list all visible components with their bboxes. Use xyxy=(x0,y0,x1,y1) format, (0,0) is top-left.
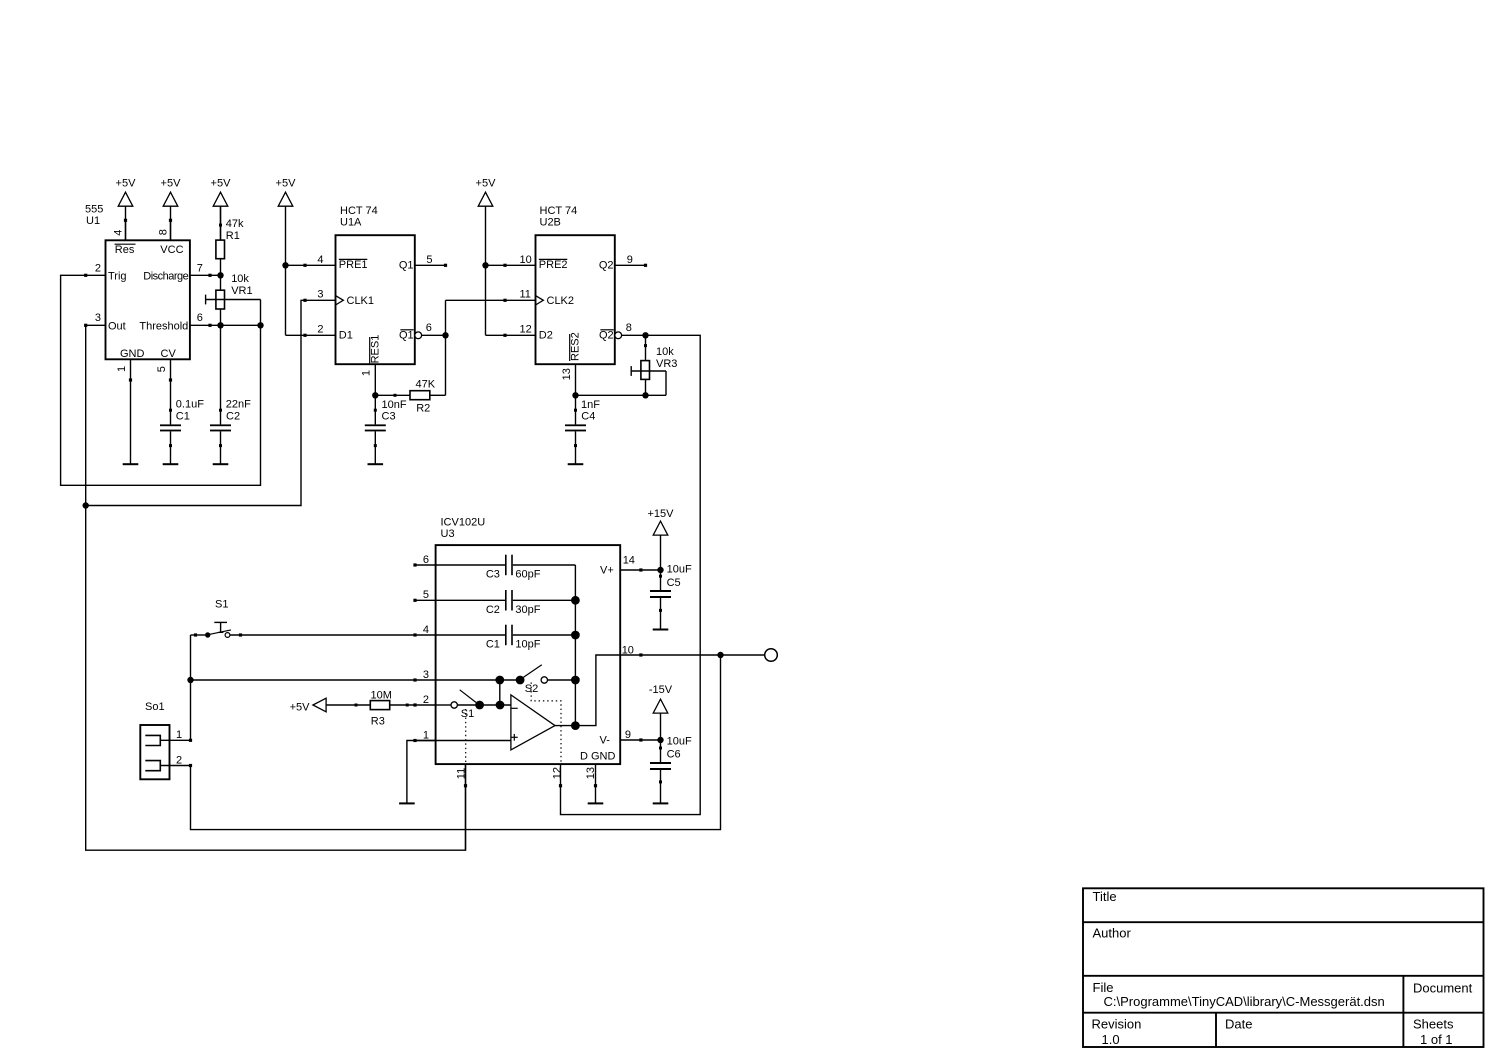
svg-text:CLK1: CLK1 xyxy=(347,295,375,307)
svg-text:10M: 10M xyxy=(371,690,392,702)
title block frame xyxy=(1083,888,1484,1047)
svg-text:PRE2: PRE2 xyxy=(539,259,568,271)
U3 pin 10 output xyxy=(620,644,642,656)
capacitor C2 22nF xyxy=(210,325,251,463)
svg-text:+15V: +15V xyxy=(648,508,675,520)
svg-text:1: 1 xyxy=(423,729,429,741)
ground (U1 pin1) xyxy=(123,463,139,465)
svg-text:-15V: -15V xyxy=(649,684,673,696)
svg-text:10: 10 xyxy=(622,644,634,656)
node C5 junction xyxy=(657,567,663,573)
U1 pin 3 Out xyxy=(84,312,105,327)
U2B pin 11 CLK2 xyxy=(503,289,574,307)
svg-text:1: 1 xyxy=(116,366,128,372)
svg-text:S1: S1 xyxy=(215,599,228,611)
U3 pin 11 xyxy=(455,764,467,850)
node Threshold junction left xyxy=(217,322,223,328)
svg-text:D GND: D GND xyxy=(580,750,616,762)
wire pins 3-2 link xyxy=(499,680,501,705)
U3 pin 1 xyxy=(413,729,435,742)
svg-text:22nF: 22nF xyxy=(226,399,251,411)
svg-text:10: 10 xyxy=(520,254,532,266)
svg-text:R3: R3 xyxy=(371,716,385,728)
capacitor C2 30pF internal xyxy=(436,590,576,616)
svg-text:7: 7 xyxy=(197,262,203,274)
svg-text:555: 555 xyxy=(85,203,103,215)
IC U3 ICV102U body xyxy=(436,517,621,765)
U1A pin 6 Q1-bar xyxy=(399,322,445,341)
svg-text:Author: Author xyxy=(1093,926,1132,941)
svg-text:R2: R2 xyxy=(416,403,430,415)
potentiometer VR1 10k xyxy=(206,273,261,325)
svg-text:+5V: +5V xyxy=(161,177,182,189)
op-amp U3 internal xyxy=(511,695,555,750)
switch S2 xyxy=(495,665,575,696)
U1 pin 2 Trig xyxy=(84,262,105,277)
svg-text:12: 12 xyxy=(520,323,532,335)
ground (C5) xyxy=(653,629,669,631)
node C6 junction xyxy=(657,737,663,743)
svg-text:60pF: 60pF xyxy=(515,568,540,580)
node +5V/PRE1 junction xyxy=(282,262,288,268)
U3 pin 12 number xyxy=(551,767,563,779)
svg-text:+5V: +5V xyxy=(276,177,297,189)
flip-flop U1A HCT74 body xyxy=(336,205,415,364)
svg-text:1: 1 xyxy=(361,370,373,376)
svg-text:CV: CV xyxy=(161,348,177,360)
svg-text:2: 2 xyxy=(176,754,182,766)
node rail S2 junction xyxy=(571,676,580,685)
capacitor C6 10uF xyxy=(641,736,692,803)
ground (U3 pin 13) xyxy=(588,802,604,804)
svg-text:9: 9 xyxy=(625,729,631,741)
svg-text:Document: Document xyxy=(1413,980,1473,995)
U2B pin 13 RES2 xyxy=(561,332,581,395)
node VR3 bottom junction xyxy=(642,392,648,398)
wire pin 3 row xyxy=(436,679,521,681)
svg-text:VR3: VR3 xyxy=(656,358,677,370)
svg-text:4: 4 xyxy=(423,624,429,636)
ground (U3 pin 1) xyxy=(399,802,415,804)
svg-text:ICV102U: ICV102U xyxy=(441,517,486,529)
svg-text:1.0: 1.0 xyxy=(1102,1032,1120,1047)
ground (C1) xyxy=(163,463,179,465)
power +5V symbol (R3, pointing left) xyxy=(290,698,371,713)
wire So1 pin2 to output node xyxy=(191,655,721,830)
svg-text:2: 2 xyxy=(423,694,429,706)
U1 pin 6 Threshold xyxy=(190,312,212,327)
U2B pin 12 D2 xyxy=(503,323,552,341)
svg-text:11: 11 xyxy=(520,289,531,301)
wire pin 1 row to op-amp xyxy=(415,740,511,742)
svg-text:1: 1 xyxy=(176,729,182,741)
svg-text:10k: 10k xyxy=(231,273,249,285)
potentiometer VR3 10k xyxy=(631,335,677,395)
wire Q2-bar to U3 pin12 loop xyxy=(559,335,700,814)
wire op-amp output xyxy=(555,655,620,726)
svg-text:1nF: 1nF xyxy=(581,399,600,411)
svg-text:+5V: +5V xyxy=(211,177,232,189)
svg-text:4: 4 xyxy=(112,230,124,236)
svg-text:5: 5 xyxy=(426,254,432,266)
title block labels xyxy=(1092,889,1473,1047)
U1A pin 5 Q1 xyxy=(399,254,447,272)
svg-text:GND: GND xyxy=(120,348,145,360)
svg-text:30pF: 30pF xyxy=(515,604,540,616)
svg-text:Title: Title xyxy=(1093,889,1117,904)
power +5V symbol (U1 pin 8) xyxy=(161,177,182,240)
wire node to U3 pin 3 xyxy=(191,679,416,681)
wire Q1-bar to CLK2 and R2 xyxy=(446,300,506,395)
svg-text:File: File xyxy=(1093,980,1114,995)
U3 pin 14 V+ xyxy=(620,554,642,571)
capacitor C5 10uF xyxy=(641,564,692,629)
wire 555 Out riser xyxy=(86,325,466,850)
U2B pin 8 Q2-bar xyxy=(599,322,645,341)
wire U1 pin1 to ground xyxy=(130,380,132,464)
svg-text:5: 5 xyxy=(156,366,168,372)
switch S1 pushbutton xyxy=(191,599,416,638)
svg-text:47K: 47K xyxy=(416,379,436,391)
power +5V symbol (U1A PRE1/D1) xyxy=(276,177,297,335)
svg-text:Discharge: Discharge xyxy=(143,271,188,283)
flip-flop U2B HCT74 body xyxy=(536,205,615,364)
svg-text:6: 6 xyxy=(426,322,432,334)
svg-text:V+: V+ xyxy=(600,565,614,577)
svg-text:Q1: Q1 xyxy=(399,259,414,271)
svg-text:10k: 10k xyxy=(656,346,674,358)
U3 pin 4 xyxy=(413,624,435,637)
svg-text:C6: C6 xyxy=(667,749,681,761)
power -15V symbol (C6) xyxy=(649,684,673,740)
node Q1-bar junction xyxy=(442,332,448,338)
svg-text:C2: C2 xyxy=(226,411,240,423)
wire internal rail xyxy=(574,565,576,726)
node S1/pin3/So1 junction xyxy=(187,677,193,683)
svg-text:C5: C5 xyxy=(667,577,681,589)
capacitor C3 10nF xyxy=(365,395,407,463)
svg-text:U1: U1 xyxy=(86,215,100,227)
U3 pin 2 xyxy=(413,694,435,707)
U1 pin 4 xyxy=(112,219,127,241)
svg-text:5: 5 xyxy=(423,589,429,601)
svg-text:S1: S1 xyxy=(461,708,474,720)
svg-text:8: 8 xyxy=(158,229,170,235)
svg-text:2: 2 xyxy=(95,262,101,274)
svg-text:D1: D1 xyxy=(339,329,353,341)
ground (C2) xyxy=(213,463,229,465)
svg-text:6: 6 xyxy=(423,554,429,566)
svg-text:6: 6 xyxy=(197,312,203,324)
U3 pin 5 xyxy=(413,589,435,602)
dotted control S2 to pin 12 xyxy=(531,683,561,765)
svg-text:RES1: RES1 xyxy=(369,335,381,364)
power +5V symbol (U2B PRE2/D2) xyxy=(476,177,497,335)
connector So1 xyxy=(140,701,192,779)
capacitor C3 60pF internal xyxy=(436,555,576,581)
U3 pin 13 xyxy=(585,764,597,803)
ground (C4) xyxy=(568,463,584,465)
wire D1 from +5V xyxy=(286,334,306,336)
svg-text:U2B: U2B xyxy=(540,217,561,229)
wire Trig loop to Threshold xyxy=(61,275,261,485)
svg-text:Sheets: Sheets xyxy=(1413,1017,1454,1032)
svg-text:HCT 74: HCT 74 xyxy=(340,205,378,217)
svg-text:RES2: RES2 xyxy=(569,332,581,361)
svg-text:10nF: 10nF xyxy=(382,399,407,411)
capacitor C1 10pF internal xyxy=(436,625,576,651)
svg-text:C1: C1 xyxy=(486,638,500,650)
capacitor C1 0.1uF xyxy=(160,380,204,464)
svg-text:PRE1: PRE1 xyxy=(339,259,368,271)
svg-text:So1: So1 xyxy=(145,701,165,713)
svg-text:3: 3 xyxy=(317,289,323,301)
wire output to terminal xyxy=(641,654,765,656)
svg-text:+5V: +5V xyxy=(116,177,137,189)
wire pin7 to R1 node xyxy=(210,274,221,276)
svg-text:13: 13 xyxy=(585,767,597,779)
dotted control S1 to pin 11 xyxy=(465,709,467,764)
node Discharge junction xyxy=(217,272,223,278)
U1 pin 8 xyxy=(158,219,173,241)
wire PRE2 from +5V junction xyxy=(486,264,506,266)
svg-text:Date: Date xyxy=(1225,1017,1252,1032)
svg-text:VR1: VR1 xyxy=(231,285,252,297)
svg-text:VCC: VCC xyxy=(160,244,183,256)
node Out/CLK1 junction xyxy=(83,502,89,508)
svg-text:9: 9 xyxy=(627,254,633,266)
svg-text:Threshold: Threshold xyxy=(139,320,188,332)
svg-text:14: 14 xyxy=(623,554,635,566)
svg-text:4: 4 xyxy=(317,254,323,266)
svg-text:HCT 74: HCT 74 xyxy=(540,205,578,217)
resistor R3 10M xyxy=(355,690,416,728)
resistor R1 47k xyxy=(216,206,244,275)
node RES1 junction xyxy=(372,392,378,398)
switch S1 internal xyxy=(436,690,511,720)
U1A pin 1 RES1 xyxy=(361,335,382,396)
node RES2 junction xyxy=(572,392,578,398)
svg-text:Revision: Revision xyxy=(1092,1017,1142,1032)
U1 pin 7 Discharge xyxy=(190,262,212,277)
node rail C2 junction xyxy=(571,596,580,605)
power +5V symbol (U1 pin 4) xyxy=(116,177,137,240)
wire D2 from +5V xyxy=(486,334,506,336)
svg-text:C1: C1 xyxy=(176,411,190,423)
svg-text:C3: C3 xyxy=(486,568,500,580)
svg-text:U1A: U1A xyxy=(340,217,362,229)
node Threshold junction right xyxy=(257,322,263,328)
U1A pin 2 D1 xyxy=(303,323,352,341)
svg-text:10pF: 10pF xyxy=(515,638,540,650)
svg-text:Q1: Q1 xyxy=(399,330,414,342)
svg-text:C3: C3 xyxy=(382,411,396,423)
U3 pin 9 V- xyxy=(620,729,642,741)
svg-text:CLK2: CLK2 xyxy=(547,295,575,307)
node op-amp output junction xyxy=(571,721,580,730)
svg-text:C4: C4 xyxy=(581,411,595,423)
svg-text:D2: D2 xyxy=(539,329,553,341)
svg-text:Trig: Trig xyxy=(108,271,127,283)
ground (C3) xyxy=(368,463,384,465)
svg-text:1 of 1: 1 of 1 xyxy=(1420,1032,1453,1047)
node Q2-bar junction xyxy=(642,332,648,338)
svg-text:47k: 47k xyxy=(226,218,244,230)
U1 pin 1 GND xyxy=(116,359,132,381)
node rail C1 junction xyxy=(571,631,580,640)
svg-text:C:\Programme\TinyCAD\library\C: C:\Programme\TinyCAD\library\C-Messgerät… xyxy=(1104,994,1385,1009)
svg-text:+5V: +5V xyxy=(476,177,497,189)
wire S1 to node xyxy=(190,635,192,740)
svg-text:Out: Out xyxy=(108,320,126,332)
svg-text:+5V: +5V xyxy=(290,702,311,714)
svg-text:Res: Res xyxy=(115,244,135,256)
power +15V symbol (C5) xyxy=(648,508,675,570)
power +5V symbol (R1) xyxy=(211,177,232,240)
resistor R2 47K xyxy=(375,379,445,415)
U2B pin 10 PRE2 xyxy=(503,254,567,271)
U2B pin 9 Q2 xyxy=(599,254,647,272)
U3 pin 6 xyxy=(413,554,435,567)
wire CLK1 from 555 Out xyxy=(86,300,305,505)
wire pin 1 to ground xyxy=(407,741,415,803)
svg-text:3: 3 xyxy=(423,669,429,681)
svg-text:3: 3 xyxy=(95,312,101,324)
svg-text:10uF: 10uF xyxy=(667,564,692,576)
svg-text:Q2: Q2 xyxy=(599,259,614,271)
svg-text:10uF: 10uF xyxy=(667,736,692,748)
svg-text:S2: S2 xyxy=(525,683,538,695)
wire RES2 node xyxy=(576,394,667,396)
node output junction xyxy=(717,652,723,658)
svg-text:12: 12 xyxy=(551,767,563,779)
U1A pin 3 CLK1 xyxy=(303,289,374,307)
svg-text:U3: U3 xyxy=(441,528,455,540)
svg-text:13: 13 xyxy=(561,368,573,380)
svg-text:V-: V- xyxy=(600,735,611,747)
svg-text:8: 8 xyxy=(626,322,632,334)
capacitor C4 1nF xyxy=(565,395,600,463)
node +5V/PRE2 junction xyxy=(482,262,488,268)
timer U1 555 body xyxy=(85,203,190,360)
ground (C6) xyxy=(653,802,669,804)
U1 pin 5 CV xyxy=(156,359,172,381)
svg-text:R1: R1 xyxy=(226,230,240,242)
U3 pin 3 xyxy=(413,669,435,682)
wire pin6 to VR1 node xyxy=(210,324,261,326)
svg-text:Q2: Q2 xyxy=(599,330,614,342)
wire PRE1 from +5V junction xyxy=(286,264,306,266)
svg-text:0.1uF: 0.1uF xyxy=(176,399,204,411)
terminal output xyxy=(765,649,778,662)
svg-text:C2: C2 xyxy=(486,604,500,616)
svg-text:2: 2 xyxy=(317,323,323,335)
U1A pin 4 PRE1 xyxy=(303,254,367,271)
